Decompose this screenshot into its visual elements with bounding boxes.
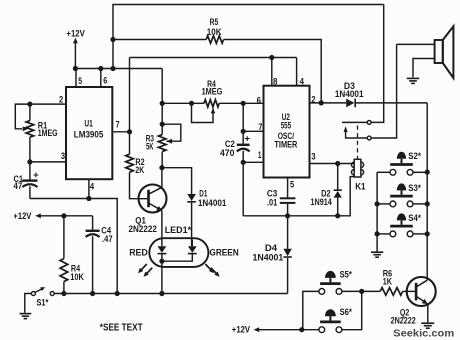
wire R5 branch from +12V: [113, 39, 206, 41]
svg-text:Seekic.com: Seekic.com: [393, 328, 454, 339]
svg-text:10K: 10K: [207, 27, 222, 38]
diode D3 1N4001: [335, 81, 364, 107]
LED green element: [162, 240, 239, 262]
switch S5: [303, 270, 362, 330]
wire U1 pin 7: [112, 131, 129, 133]
wire +12V rail down to R3: [160, 69, 165, 135]
pin 4 label U2: [300, 76, 305, 87]
svg-text:6: 6: [257, 96, 261, 107]
wire bottom rail: [54, 293, 287, 295]
capacitor C4 .47: [86, 216, 113, 296]
LED red element: [129, 240, 166, 264]
svg-text:1K: 1K: [383, 277, 392, 288]
svg-text:1N4001: 1N4001: [198, 198, 227, 209]
pin 3 label U2: [311, 152, 315, 163]
wire R2 column from corner: [127, 58, 132, 155]
wire D1 to LED green: [191, 203, 193, 240]
svg-text:47: 47: [14, 181, 23, 192]
ground (Q2): [421, 323, 434, 328]
svg-text:470: 470: [220, 148, 234, 159]
power +12V (middle left): [13, 211, 92, 222]
svg-text:.47: .47: [102, 234, 113, 245]
diode D4 1N4001: [253, 216, 292, 294]
potentiometer R3 5K: [146, 124, 181, 153]
wire S5/S6 node to R6: [362, 290, 381, 292]
svg-text:2: 2: [311, 95, 315, 106]
wire Q1 collector: [159, 165, 164, 187]
svg-text:LM3905: LM3905: [74, 130, 104, 141]
switch S3: [377, 183, 427, 207]
svg-text:1: 1: [258, 150, 262, 161]
svg-text:7: 7: [116, 120, 120, 131]
capacitor C3 .01: [267, 178, 296, 216]
speaker: [397, 26, 454, 78]
wire U1 pin 6 stub: [101, 69, 107, 88]
wire R1 wiper loop: [15, 104, 30, 131]
svg-text:U1: U1: [84, 118, 93, 129]
wire speaker to ground: [413, 59, 434, 78]
pin 6 label U2: [257, 96, 261, 107]
wire U2 pin 3 to K1: [310, 161, 355, 166]
potentiometer R4 1MEG: [192, 79, 223, 122]
wire S2-S4 ground column: [375, 172, 380, 252]
diode D1 1N4001: [187, 189, 227, 209]
wire pins 8/4 top link: [130, 55, 297, 86]
svg-text:1MEG: 1MEG: [38, 128, 58, 139]
resistor R5: [206, 17, 223, 43]
svg-text:S3*: S3*: [408, 183, 421, 194]
wire LED cathode to rail: [159, 261, 164, 296]
svg-text:10K: 10K: [70, 272, 84, 283]
svg-text:GREEN: GREEN: [209, 247, 239, 258]
wire collector column: [425, 103, 430, 280]
svg-text:.01: .01: [267, 198, 278, 209]
wire +12V top feed line: [110, 5, 383, 72]
svg-text:S5*: S5*: [340, 270, 352, 281]
wire +12V rail above U1: [73, 66, 162, 71]
wire Q1 emitter to LED: [161, 211, 163, 240]
ground (S2-S4): [371, 252, 383, 257]
svg-text:5K: 5K: [146, 142, 154, 153]
wire U2 pin 1: [243, 161, 263, 163]
switch S6: [319, 289, 364, 333]
wire S1 to ground: [25, 294, 32, 313]
svg-text:1N4001: 1N4001: [253, 252, 284, 263]
resistor R2 2K: [126, 154, 145, 176]
resistor R4 10K (lower left): [60, 216, 84, 296]
LED light arrows (left): [138, 264, 152, 277]
note *SEE TEXT: [100, 322, 143, 334]
transistor Q1 2N2222: [129, 185, 167, 236]
pin 7 label U2: [258, 122, 262, 133]
pin 3 label U1: [61, 151, 65, 162]
wire U1 pin 4 net: [30, 180, 120, 297]
svg-text:3: 3: [311, 152, 315, 163]
svg-text:+12V: +12V: [66, 29, 85, 40]
wire ground-side net y=216: [243, 177, 354, 219]
svg-text:TIMER: TIMER: [274, 140, 297, 151]
LED light arrows (right): [205, 264, 219, 277]
svg-text:1N4001: 1N4001: [335, 89, 364, 100]
capacitor C2 470: [220, 103, 250, 216]
wire R5 to U2 pin 2 node: [224, 40, 322, 103]
wire U1 pin 2 to R1: [27, 102, 66, 107]
svg-text:RED: RED: [129, 247, 148, 258]
wire Q1 node to D1: [162, 168, 192, 194]
pin 8 label U2: [273, 76, 277, 87]
potentiometer R1 1MEG: [26, 104, 57, 162]
watermark Seekic.com: [393, 328, 454, 339]
relay mechanical link (dashed): [357, 126, 359, 159]
wire U1 pin 5 stub: [76, 69, 83, 88]
ground (S1): [20, 314, 32, 319]
svg-text:5: 5: [78, 76, 82, 87]
svg-text:+12V: +12V: [232, 325, 251, 336]
svg-text:8: 8: [273, 76, 277, 87]
wire Q2 emitter to ground: [427, 304, 429, 322]
wire R2 to Q1 base: [130, 172, 149, 199]
svg-text:+12V: +12V: [13, 211, 32, 222]
svg-text:4: 4: [300, 76, 305, 87]
switch S4: [377, 213, 427, 237]
pin 5 label U2: [290, 179, 295, 190]
svg-text:5: 5: [290, 179, 295, 190]
diode D2 1N914: [311, 164, 342, 216]
svg-text:3: 3: [61, 151, 65, 162]
pin 1 label U2: [258, 150, 262, 161]
op-amp U1 LM3905 box: [66, 87, 112, 179]
relay K1 coil: [352, 159, 367, 192]
svg-text:2N2222: 2N2222: [391, 316, 416, 327]
wire D3 to collector column: [356, 102, 427, 104]
power +12V (top): [66, 29, 85, 69]
LED1 bi-color outline: [149, 225, 208, 267]
svg-text:LED1*: LED1*: [165, 225, 192, 236]
switch S2: [377, 151, 427, 175]
resistor R6 1K: [380, 269, 402, 296]
relay contact (upper, to +12V): [342, 5, 384, 125]
svg-text:1N914: 1N914: [311, 197, 333, 208]
svg-text:2K: 2K: [135, 165, 144, 176]
power +12V (bottom): [232, 325, 319, 336]
svg-text:S4*: S4*: [408, 213, 421, 224]
wire pin 6 line (right part): [219, 101, 263, 106]
pin 7 label U1: [116, 120, 120, 131]
svg-text:6: 6: [103, 76, 107, 87]
wire R3 to Q1 collector node: [161, 152, 163, 168]
svg-text:1MEG: 1MEG: [202, 87, 223, 98]
capacitor C1 47: [14, 162, 39, 199]
pin 2 label U2: [311, 95, 315, 106]
relay contact (lower, to speaker): [371, 44, 397, 138]
wire U1 pin 3 to C1: [27, 159, 66, 164]
svg-text:4: 4: [90, 182, 95, 193]
pin 4 label U1: [90, 182, 95, 193]
wire U2 pin 2 node: [310, 100, 347, 105]
wire pin 6 line (left part): [162, 101, 204, 106]
svg-text:K1: K1: [355, 182, 366, 193]
svg-text:S6*: S6*: [340, 307, 352, 318]
relay armature arrow: [344, 126, 372, 140]
timer U2 555 box: [264, 86, 310, 178]
transistor Q2 2N2222: [391, 277, 436, 327]
wire U2 pin 7: [243, 130, 263, 132]
svg-text:S2*: S2*: [408, 151, 421, 162]
svg-text:S1*: S1*: [37, 297, 49, 308]
svg-text:2N2222: 2N2222: [129, 224, 157, 235]
pin 2 label U1: [59, 94, 63, 105]
ground (speaker): [407, 78, 419, 83]
wire R6 to Q2 base: [403, 290, 417, 292]
switch S1: [31, 287, 54, 308]
svg-text:*SEE TEXT: *SEE TEXT: [100, 322, 143, 334]
